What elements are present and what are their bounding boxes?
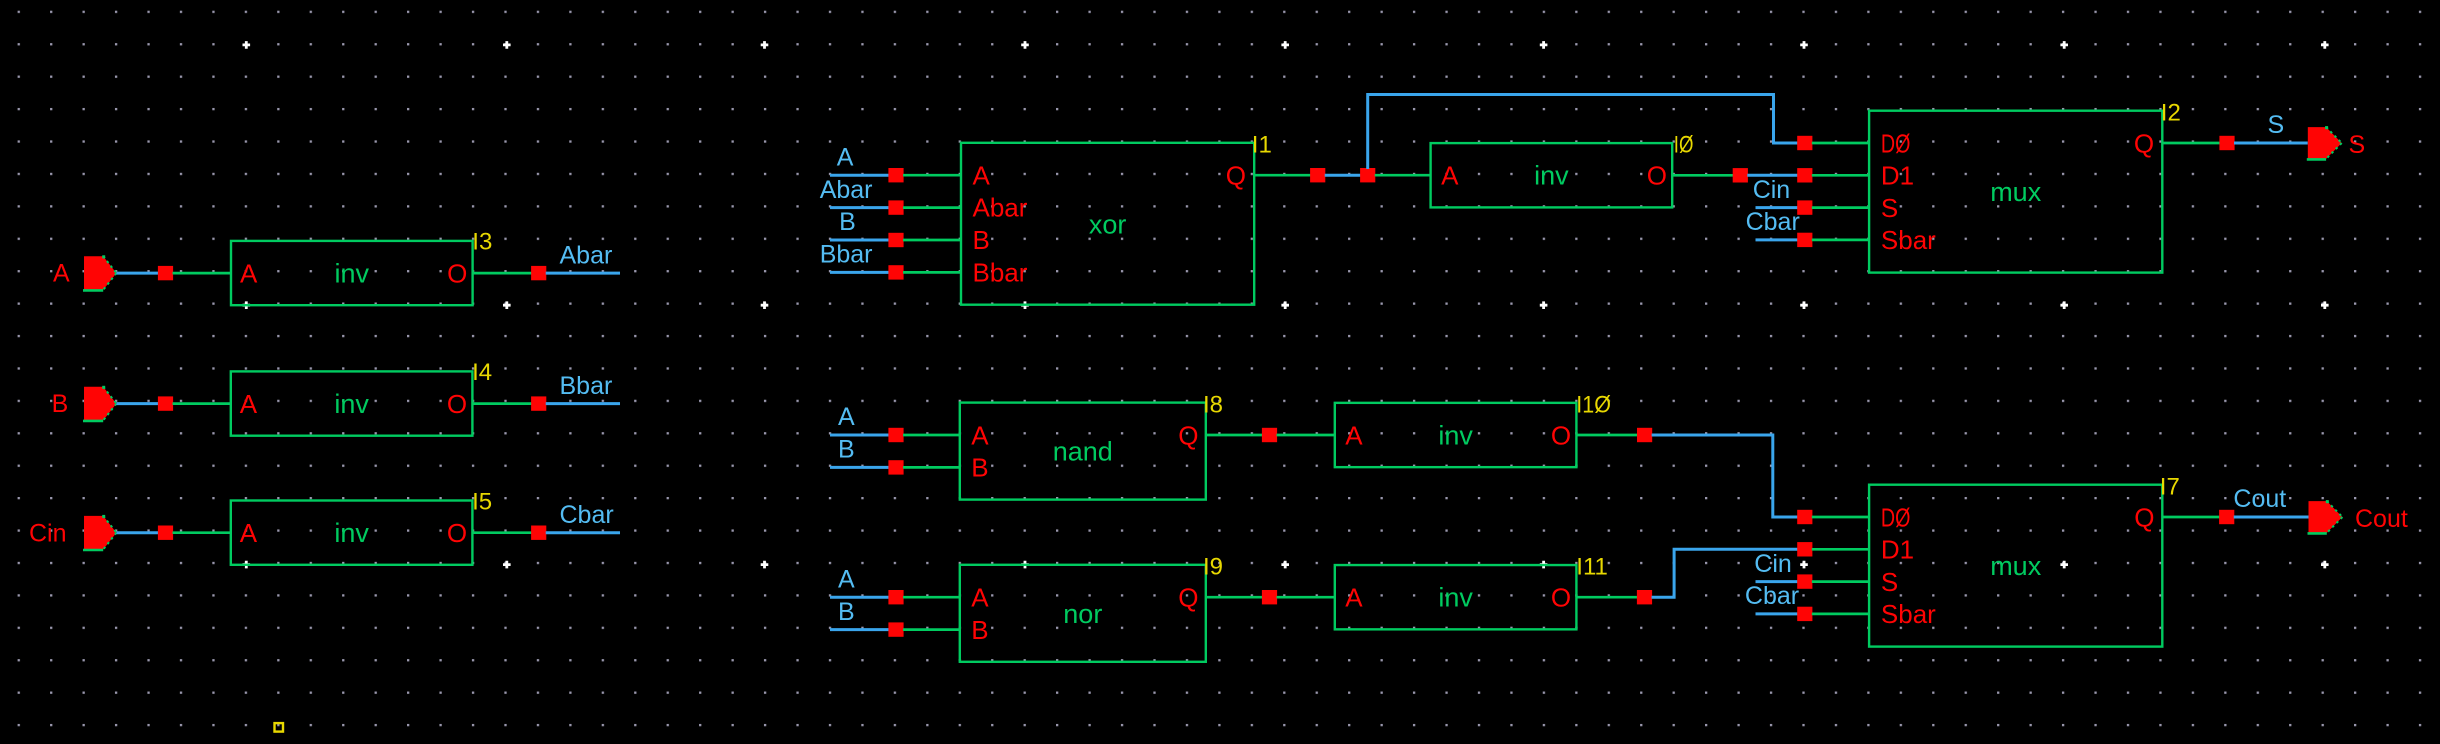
- junction I9.A: [888, 590, 903, 604]
- wire junction to I8.B (green): [903, 466, 960, 469]
- junction Cbar: [531, 526, 546, 540]
- wire xor-out to I2.D0 (blue): [1368, 95, 1798, 170]
- wire net A to I1.A (blue): [830, 174, 896, 177]
- wire junction to I1.Abar (green): [903, 206, 961, 209]
- wire I10.O to I7.D0 (blue): [1652, 435, 1798, 517]
- svg-text:inv: inv: [1438, 583, 1473, 613]
- junction Bbar: [531, 396, 546, 410]
- junction I0.O: [1733, 168, 1748, 182]
- wire net Bbar to I1.Bbar (blue): [830, 271, 896, 274]
- junction I2.Sbar: [1797, 233, 1812, 247]
- svg-text:B: B: [971, 615, 988, 645]
- origin marker: [275, 723, 284, 732]
- svg-text:xor: xor: [1089, 209, 1127, 239]
- wire to I2.D1 (blue): [1747, 174, 1798, 177]
- wire junction to I1.Bbar (green): [903, 271, 961, 274]
- svg-text:I5: I5: [472, 488, 492, 515]
- junction I7.S: [1797, 574, 1812, 588]
- svg-text:mux: mux: [1990, 551, 2042, 581]
- wire junction to I9.B (green): [903, 628, 960, 631]
- wire to I2.S (green): [1812, 206, 1869, 209]
- svg-text:A: A: [240, 258, 258, 288]
- wire to port Cout (blue): [2234, 516, 2309, 519]
- xor I1: [961, 143, 1254, 305]
- svg-text:I1Ø: I1Ø: [1576, 392, 1611, 419]
- wire to I2.Sbar (green): [1812, 239, 1869, 242]
- junction node xor-out: [1360, 168, 1375, 182]
- inverter I3: [231, 241, 473, 305]
- svg-text:Q: Q: [2134, 128, 2154, 158]
- junction I11.O: [1637, 590, 1652, 604]
- junction I8.B: [888, 460, 903, 474]
- wire I4.O to junction (green): [472, 402, 538, 405]
- nand I8: [960, 403, 1206, 500]
- wire junction to I9.A (green): [903, 596, 960, 599]
- wire I1.Q to junction (green): [1254, 174, 1318, 177]
- svg-text:Bbar: Bbar: [973, 257, 1028, 287]
- input port A: [83, 255, 116, 290]
- junction B: [158, 396, 173, 410]
- svg-text:A: A: [53, 260, 70, 288]
- svg-text:Cout: Cout: [2355, 505, 2408, 533]
- svg-text:A: A: [1345, 583, 1363, 613]
- wire I3.O to junction (green): [473, 272, 539, 275]
- wire net B to I8.B (blue): [830, 466, 896, 469]
- wire junction to I4.A (green): [173, 402, 231, 405]
- svg-text:Abar: Abar: [560, 241, 613, 269]
- svg-text:O: O: [447, 518, 467, 548]
- junction I2.D1: [1797, 168, 1812, 182]
- wire I5.O to junction (green): [472, 531, 538, 534]
- svg-text:B: B: [973, 225, 990, 255]
- svg-text:Bbar: Bbar: [820, 241, 873, 269]
- wire to I7.D1 (green): [1812, 548, 1869, 551]
- mux I2: [1869, 111, 2162, 273]
- wire net A to I9.A (blue): [830, 596, 896, 599]
- svg-text:inv: inv: [1438, 420, 1473, 450]
- svg-text:A: A: [973, 160, 991, 190]
- svg-text:I8: I8: [1203, 392, 1223, 419]
- svg-text:Cbar: Cbar: [1745, 582, 1799, 610]
- svg-text:B: B: [839, 208, 856, 236]
- wire B port to junction (blue): [116, 402, 165, 405]
- svg-text:S: S: [2268, 111, 2285, 139]
- svg-text:A: A: [838, 403, 855, 431]
- wire to I2.D1 (green): [1812, 174, 1869, 177]
- junction I1.Q: [1310, 168, 1325, 182]
- wire net A to I8.A (blue): [830, 434, 896, 437]
- svg-text:A: A: [240, 518, 258, 548]
- wire net B to I9.B (blue): [830, 628, 896, 631]
- wire I2.Q to junction (green): [2162, 142, 2227, 145]
- output port Cout: [2308, 500, 2343, 533]
- junction I9.Q: [1262, 590, 1277, 604]
- junction Cout out: [2219, 510, 2234, 524]
- svg-text:inv: inv: [335, 258, 370, 288]
- svg-text:Cin: Cin: [1753, 176, 1791, 204]
- wire junction to I5.A (green): [173, 531, 231, 534]
- svg-text:I2: I2: [2161, 99, 2181, 126]
- svg-text:Cbar: Cbar: [560, 501, 614, 529]
- wire net Abar to I1.Abar (blue): [830, 206, 896, 209]
- svg-text:O: O: [1647, 161, 1667, 191]
- svg-text:I9: I9: [1203, 554, 1223, 581]
- svg-text:Cbar: Cbar: [1746, 208, 1800, 236]
- output port S: [2307, 126, 2342, 159]
- svg-text:inv: inv: [1534, 161, 1569, 191]
- wire A port to junction (blue): [116, 272, 165, 275]
- wire net Abar (blue): [546, 272, 620, 275]
- svg-text:O: O: [1551, 583, 1571, 613]
- junction A: [158, 266, 173, 280]
- wire to I2.D0 (green): [1812, 142, 1869, 145]
- svg-text:O: O: [1551, 420, 1571, 450]
- svg-text:I7: I7: [2160, 473, 2180, 500]
- wire net Cbar to I2.Sbar (blue): [1756, 238, 1798, 241]
- inverter I11: [1335, 565, 1577, 629]
- wire (blue): [1325, 174, 1361, 177]
- junction I1.Bbar: [888, 265, 903, 279]
- svg-text:S: S: [1881, 193, 1898, 223]
- svg-text:S: S: [2349, 131, 2366, 159]
- wire junction to I3.A (green): [173, 272, 232, 275]
- svg-text:I4: I4: [472, 359, 492, 386]
- wire net Cbar (blue): [546, 531, 620, 534]
- svg-text:DØ: DØ: [1881, 128, 1911, 158]
- junction I9.B: [888, 622, 903, 636]
- svg-text:Q: Q: [1226, 160, 1246, 190]
- svg-text:inv: inv: [334, 389, 369, 419]
- wire I7.Q to junction (green): [2162, 516, 2226, 519]
- svg-text:A: A: [971, 583, 989, 613]
- wire I11.O to junction (green): [1576, 596, 1644, 599]
- wire net B to I1.B (blue): [830, 239, 896, 242]
- mux I7: [1869, 485, 2162, 647]
- wire junction to I11.A (green): [1277, 596, 1335, 599]
- wire net Cbar to I7.Sbar (blue): [1756, 612, 1798, 615]
- inverter I4: [231, 371, 473, 435]
- svg-text:nor: nor: [1063, 599, 1102, 629]
- svg-text:O: O: [447, 389, 467, 419]
- svg-text:nand: nand: [1053, 437, 1113, 467]
- svg-text:S: S: [1881, 567, 1898, 597]
- junction I8.A: [888, 428, 903, 442]
- svg-text:B: B: [971, 453, 988, 483]
- svg-text:O: O: [447, 258, 467, 288]
- wire net Cin to I2.S (blue): [1756, 206, 1798, 209]
- svg-text:I11: I11: [1576, 554, 1608, 581]
- svg-text:Abar: Abar: [973, 193, 1028, 223]
- input port B: [83, 386, 116, 421]
- svg-text:Cin: Cin: [1754, 550, 1792, 578]
- junction Cin: [158, 526, 173, 540]
- wire Cin port to junction (blue): [116, 531, 165, 534]
- wire I10.O to junction (green): [1576, 434, 1644, 437]
- junction I1.A: [888, 168, 903, 182]
- svg-text:Bbar: Bbar: [560, 372, 613, 400]
- inverter I10: [1335, 403, 1577, 467]
- svg-text:A: A: [1345, 420, 1363, 450]
- wire junction to I10.A (green): [1277, 434, 1335, 437]
- wire net Cin to I7.S (blue): [1756, 580, 1798, 583]
- svg-text:B: B: [838, 436, 855, 464]
- svg-text:Q: Q: [1178, 420, 1198, 450]
- svg-text:Sbar: Sbar: [1881, 599, 1936, 629]
- svg-text:Sbar: Sbar: [1881, 225, 1936, 255]
- junction I7.Sbar: [1797, 607, 1812, 621]
- wire to I7.Sbar (green): [1812, 613, 1869, 616]
- wire I11.O to I7.D1 (blue): [1652, 549, 1798, 597]
- svg-text:Q: Q: [1178, 583, 1198, 613]
- svg-text:A: A: [837, 143, 854, 171]
- svg-text:A: A: [1441, 161, 1459, 191]
- svg-text:mux: mux: [1990, 177, 2042, 207]
- wire I9.Q to junction (green): [1206, 596, 1270, 599]
- wire to I7.D0 (green): [1812, 516, 1869, 519]
- junction I7.D1: [1797, 542, 1812, 556]
- wire junction to I1.A (green): [903, 174, 961, 177]
- svg-text:D1: D1: [1881, 161, 1914, 191]
- junction I2.S: [1797, 200, 1812, 214]
- svg-text:Abar: Abar: [820, 176, 873, 204]
- svg-text:I1: I1: [1252, 131, 1272, 158]
- svg-text:A: A: [971, 420, 989, 450]
- inverter I5: [231, 501, 473, 565]
- svg-text:Cin: Cin: [29, 519, 67, 547]
- svg-text:DØ: DØ: [1881, 502, 1911, 532]
- junction I1.Abar: [888, 200, 903, 214]
- wire to port S (blue): [2234, 142, 2308, 145]
- wire to I7.S (green): [1812, 580, 1869, 583]
- junction I8.Q: [1262, 428, 1277, 442]
- wire I8.Q to junction (green): [1206, 434, 1270, 437]
- svg-text:IØ: IØ: [1674, 132, 1694, 159]
- svg-text:A: A: [240, 389, 258, 419]
- svg-text:Cout: Cout: [2233, 485, 2286, 513]
- wire junction to I8.A (green): [903, 434, 960, 437]
- svg-text:inv: inv: [334, 518, 369, 548]
- svg-text:B: B: [838, 598, 855, 626]
- svg-text:B: B: [52, 390, 69, 418]
- wire net Bbar (blue): [546, 402, 620, 405]
- input port Cin: [83, 515, 116, 550]
- svg-text:D1: D1: [1881, 535, 1914, 565]
- junction I1.B: [888, 233, 903, 247]
- nor I9: [960, 565, 1206, 662]
- junction I2.D0: [1797, 136, 1812, 150]
- wire junction to I0.A (green): [1375, 174, 1431, 177]
- junction I10.O: [1637, 428, 1652, 442]
- svg-text:I3: I3: [472, 229, 492, 256]
- wire I0.O to junction (green): [1672, 174, 1740, 177]
- svg-text:Q: Q: [2134, 502, 2154, 532]
- inverter I0: [1431, 143, 1673, 207]
- junction Abar: [531, 266, 546, 280]
- junction S out: [2219, 136, 2234, 150]
- wire junction to I1.B (green): [903, 239, 961, 242]
- svg-text:A: A: [838, 565, 855, 593]
- junction I7.D0: [1797, 510, 1812, 524]
